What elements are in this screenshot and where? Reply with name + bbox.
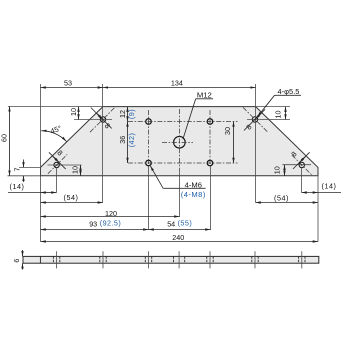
chamfer hole top-right bbox=[252, 117, 257, 122]
ext line chamfer hole BL bbox=[56, 168, 58, 192]
chamfer hole bottom-left bbox=[54, 162, 59, 167]
chamfer hole diagonal centerline top-left bbox=[90, 107, 116, 133]
svg-text:240: 240 bbox=[172, 233, 184, 242]
chamfer hole diagonal centerline bottom-right bbox=[292, 155, 312, 175]
dim 10 bottom-left bbox=[80, 165, 82, 176]
chamfer hole diagonal centerline bottom-left bbox=[48, 154, 67, 173]
svg-text:(4-M8): (4-M8) bbox=[181, 190, 206, 199]
ext line bottom edge left bbox=[8, 175, 41, 177]
M12 vertical centerline bbox=[179, 109, 181, 173]
M12 hole bbox=[174, 136, 186, 148]
chamfer hole top-left bbox=[100, 117, 105, 122]
side view bar bbox=[23, 256, 319, 263]
svg-text:(42): (42) bbox=[127, 133, 136, 148]
svg-text:6: 6 bbox=[12, 259, 21, 263]
svg-text:M12: M12 bbox=[197, 91, 212, 100]
M6 hole bottom-left bbox=[146, 160, 152, 166]
M6 hole top-right bbox=[207, 119, 213, 125]
svg-text:120: 120 bbox=[105, 209, 117, 218]
dimension lines with arrows bbox=[8, 88, 341, 270]
dim 8 top-left line bbox=[91, 108, 112, 129]
svg-text:7: 7 bbox=[12, 168, 21, 172]
svg-text:4-φ5.5: 4-φ5.5 bbox=[278, 87, 300, 96]
svg-text:10: 10 bbox=[273, 166, 282, 174]
ext line top edge left bbox=[8, 106, 103, 108]
svg-text:36: 36 bbox=[118, 136, 127, 144]
dim (54) left bbox=[41, 202, 103, 204]
dim 8 bottom-left line bbox=[49, 152, 66, 169]
ext line left edge x=40.5 bbox=[40, 84, 42, 242]
ext line left chamfer corner bbox=[102, 84, 104, 203]
M6 hole bottom-right bbox=[207, 160, 213, 166]
dim 53 bbox=[41, 87, 103, 89]
side view internal edge line bbox=[39, 256, 41, 263]
svg-text:(54): (54) bbox=[274, 193, 289, 202]
svg-text:(54): (54) bbox=[64, 193, 79, 202]
M12 horizontal centerline bbox=[162, 142, 193, 144]
dim 10 top-right bbox=[285, 107, 287, 120]
ext line chamfer hole BL level bbox=[48, 164, 82, 166]
side view hole centerline ticks bbox=[57, 251, 302, 268]
svg-text:10: 10 bbox=[71, 166, 80, 174]
ext line chamfer base bbox=[19, 166, 41, 168]
ext line chamfer hole BR bbox=[301, 168, 303, 192]
ext line M12 center bbox=[179, 173, 181, 217]
ext line chamfer hole TR level bbox=[247, 119, 290, 121]
svg-text:30: 30 bbox=[223, 127, 232, 135]
svg-text:(9): (9) bbox=[127, 109, 136, 119]
svg-text:(14): (14) bbox=[10, 182, 25, 191]
svg-text:53: 53 bbox=[64, 78, 72, 87]
chamfer hole diagonal centerline top-right bbox=[243, 107, 268, 131]
dim (54) right bbox=[256, 202, 319, 204]
leader 4-M6 bbox=[163, 187, 206, 189]
side view hidden hole edges (dashed) bbox=[53, 256, 305, 263]
dim 36 bbox=[127, 122, 129, 164]
M6 hole top-left bbox=[146, 119, 152, 125]
dim 7 bbox=[23, 160, 25, 168]
ext line top edge right bbox=[256, 106, 290, 108]
dim 8 bottom-right line bbox=[293, 152, 310, 169]
leader 4-phi5.5 bbox=[275, 94, 302, 96]
chamfer hole bottom-right bbox=[299, 162, 304, 167]
dim 240 bbox=[41, 241, 319, 243]
dim 60 bbox=[9, 106, 11, 175]
leader M12 bbox=[196, 98, 213, 100]
ext line M6 left column bbox=[148, 166, 150, 230]
row1 centerline bbox=[128, 121, 238, 123]
svg-text:(14): (14) bbox=[322, 181, 337, 190]
svg-text:(92.5): (92.5) bbox=[100, 218, 121, 227]
ext line M6 right column bbox=[210, 166, 212, 230]
dim 54 bbox=[149, 229, 211, 231]
svg-text:60: 60 bbox=[0, 134, 9, 142]
svg-text:134: 134 bbox=[171, 78, 183, 87]
ext line right chamfer corner bbox=[255, 84, 257, 203]
svg-text:10: 10 bbox=[69, 108, 78, 116]
M6 vertical centerlines bbox=[148, 110, 150, 166]
dim 10 bottom-right bbox=[284, 165, 286, 176]
svg-text:(55): (55) bbox=[178, 218, 193, 227]
ext line right edge bbox=[317, 176, 319, 242]
dim 134 bbox=[103, 87, 256, 89]
ext line chamfer hole TL level bbox=[74, 119, 112, 121]
dim 30 bbox=[233, 122, 235, 164]
45 degree arc bbox=[41, 131, 66, 142]
svg-text:12: 12 bbox=[118, 110, 127, 118]
dim 93 bbox=[41, 229, 149, 231]
centerlines bbox=[48, 107, 312, 175]
dim (14) right bbox=[302, 192, 319, 194]
dim 120 bbox=[41, 216, 180, 218]
dim (14) left bbox=[8, 192, 41, 194]
extension lines bbox=[8, 84, 319, 242]
dim 12 bbox=[127, 107, 129, 122]
svg-text:4-M6: 4-M6 bbox=[185, 180, 202, 189]
dim 8 top-right line bbox=[244, 109, 265, 130]
ext line chamfer hole BR level bbox=[282, 164, 311, 166]
svg-text:10: 10 bbox=[274, 111, 283, 119]
svg-text:54: 54 bbox=[167, 219, 175, 228]
dim 10 top-left bbox=[78, 107, 80, 120]
svg-text:93: 93 bbox=[89, 219, 97, 228]
plate main view outline bbox=[41, 107, 319, 176]
row2 centerline bbox=[128, 162, 238, 164]
dim 6 bbox=[22, 250, 24, 256]
